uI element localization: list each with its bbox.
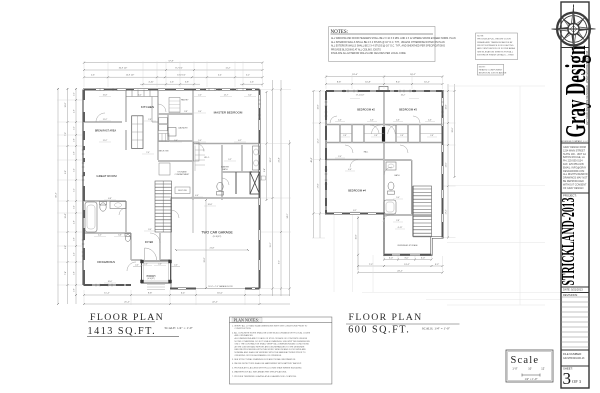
- svg-text:10'-4": 10'-4": [65, 213, 67, 218]
- svg-text:2'-0": 2'-0": [135, 265, 139, 267]
- svg-text:19'-4": 19'-4": [352, 74, 358, 76]
- svg-text:BEDROOM #4: BEDROOM #4: [348, 189, 366, 193]
- svg-text:5'-2": 5'-2": [246, 75, 250, 77]
- svg-text:3'-0": 3'-0": [73, 205, 75, 209]
- svg-text:21'-2": 21'-2": [124, 302, 130, 304]
- powder room fixtures near foyer: [125, 235, 130, 242]
- svg-text:11'-2": 11'-2": [103, 119, 108, 121]
- svg-text:6'-4": 6'-4": [181, 293, 186, 295]
- svg-text:ONLY. THE CONTRACTOR SHALL VER: ONLY. THE CONTRACTOR SHALL VERIFY ALL DI…: [235, 343, 310, 346]
- svg-text:AND ORDINANCES.: AND ORDINANCES.: [235, 334, 254, 337]
- svg-text:2'-8": 2'-8": [430, 135, 434, 137]
- svg-text:3'-0": 3'-0": [404, 257, 409, 259]
- svg-text:FOYER: FOYER: [145, 241, 154, 244]
- svg-text:AND VENTILATION OF FOYER AREA: AND VENTILATION OF FOYER AREA: [477, 47, 515, 50]
- svg-text:15'-9 1/2": 15'-9 1/2": [126, 75, 135, 77]
- porch dim row: [133, 266, 141, 268]
- pantry shelves: [169, 98, 180, 113]
- svg-text:4'-6": 4'-6": [338, 120, 342, 122]
- svg-text:5'-4": 5'-4": [174, 140, 178, 142]
- svg-text:10'-8": 10'-8": [65, 102, 67, 107]
- svg-text:4'-6": 4'-6": [73, 109, 75, 113]
- svg-text:6'-8": 6'-8": [108, 198, 112, 200]
- svg-text:FRAME AND TRANSOM ABOVE AT: FRAME AND TRANSOM ABOVE AT: [477, 41, 513, 44]
- svg-text:Scale: Scale: [511, 355, 540, 366]
- svg-text:BATH: BATH: [223, 168, 229, 171]
- kitchen island: [132, 116, 143, 149]
- svg-text:3'-2": 3'-2": [73, 126, 75, 130]
- garage door opening: [196, 287, 245, 289]
- master bath: garden tub: [235, 172, 237, 194]
- left plan: interior partitions: [84, 90, 260, 289]
- svg-text:EXTERIOR FINISH DETAILS + TRIM: EXTERIOR FINISH DETAILS + TRIM: [477, 54, 513, 57]
- Gray Design logo text (rotated): [561, 45, 592, 137]
- svg-text:ALL DIMENSIONS ARE TO FACE OF: ALL DIMENSIONS ARE TO FACE OF STUD OR FA…: [235, 337, 308, 340]
- svg-text:9'-8": 9'-8": [148, 293, 153, 295]
- svg-text:5'-0": 5'-0": [198, 140, 202, 142]
- svg-text:FLOOR PLAN: FLOOR PLAN: [349, 312, 423, 323]
- svg-text:OF GRAY DESIGN: OF GRAY DESIGN: [563, 187, 584, 190]
- svg-text:6. WATERPROOF ALL WET AREAS P: 6. WATERPROOF ALL WET AREAS PER SPECIFIC…: [232, 371, 287, 374]
- svg-text:3'-0": 3'-0": [421, 257, 426, 259]
- svg-text:2'-6": 2'-6": [73, 288, 75, 292]
- small note box 2: [477, 64, 507, 75]
- svg-text:4'-8": 4'-8": [73, 220, 75, 224]
- svg-text:COMPARTMENT: COMPARTMENT: [175, 173, 190, 176]
- svg-text:BATH: BATH: [395, 174, 401, 177]
- svg-text:2'-0": 2'-0": [144, 264, 148, 266]
- svg-text:7'-0": 7'-0": [65, 132, 67, 136]
- svg-text:PLAN NOTES:: PLAN NOTES:: [234, 317, 259, 322]
- right plan: door arcs: [330, 116, 420, 222]
- svg-text:3'-6": 3'-6": [118, 235, 122, 237]
- svg-text:12': 12': [541, 367, 545, 371]
- svg-text:2'-8": 2'-8": [73, 138, 75, 142]
- right plan title: FLOOR PLAN 600 SQ.FT.: [346, 312, 460, 336]
- title block section dividers: [561, 48, 589, 367]
- svg-text:3. SEE STRUCTURAL DRAWINGS FO: 3. SEE STRUCTURAL DRAWINGS FOR ADDITIONA…: [232, 358, 296, 361]
- svg-text:17'-11 1/2": 17'-11 1/2": [356, 94, 365, 96]
- svg-text:4'-2": 4'-2": [98, 235, 102, 237]
- svg-text:4'-6": 4'-6": [195, 195, 199, 197]
- svg-text:PANTRY: PANTRY: [181, 99, 189, 102]
- svg-text:2'-8": 2'-8": [396, 220, 400, 222]
- chimney box: [379, 87, 388, 92]
- svg-text:6'-2": 6'-2": [238, 140, 242, 142]
- svg-text:21'-8": 21'-8": [210, 248, 215, 250]
- svg-text:BEFORE PROCEEDING WITH THE WOR: BEFORE PROCEEDING WITH THE WORK. WINDOW …: [235, 348, 307, 351]
- date / revisions labels: [563, 288, 583, 298]
- dimension lines bottom (left plan): [84, 294, 290, 296]
- wall poche segments left plan: [84, 90, 260, 289]
- svg-text:5'-8": 5'-8": [73, 271, 75, 275]
- svg-text:2'-6": 2'-6": [91, 75, 95, 77]
- svg-text:3'-6": 3'-6": [73, 237, 75, 241]
- svg-text:8'-7 1/2": 8'-7 1/2": [175, 67, 183, 69]
- svg-text:CONSTRUCTION.: CONSTRUCTION.: [235, 328, 252, 330]
- svg-text:3'-6": 3'-6": [73, 151, 75, 155]
- svg-text:4. SMOKE DETECTORS SHALL BE H: 4. SMOKE DETECTORS SHALL BE HARDWIRED WI…: [232, 362, 302, 365]
- svg-text:9'-8": 9'-8": [65, 245, 67, 249]
- svg-text:15'-8": 15'-8": [103, 95, 108, 97]
- right plan: exterior walls: [326, 91, 443, 255]
- wall poche segments right plan: [326, 91, 443, 255]
- svg-text:17'-8": 17'-8": [318, 183, 320, 188]
- right plan: windows: [325, 90, 444, 184]
- svg-text:GREAT ROOM: GREAT ROOM: [96, 174, 117, 178]
- svg-text:NOMINAL AND SHALL BE VERIFIED: NOMINAL AND SHALL BE VERIFIED WITH THE M…: [235, 351, 307, 354]
- svg-text:(16 SQFT): (16 SQFT): [213, 236, 222, 238]
- svg-text:BREAKFAST AREA: BREAKFAST AREA: [95, 130, 116, 133]
- svg-text:SCALE: 1/4" = 1'-0": SCALE: 1/4" = 1'-0": [165, 326, 194, 330]
- dimension lines left (right plan): [313, 91, 315, 238]
- svg-text:2'-8": 2'-8": [374, 135, 378, 137]
- svg-text:NOTE:: NOTE:: [477, 35, 484, 37]
- svg-text:5'-2": 5'-2": [73, 188, 75, 192]
- svg-text:HEATED COMPONENT: HEATED COMPONENT: [479, 69, 503, 72]
- svg-text:MASTER BEDROOM: MASTER BEDROOM: [214, 111, 243, 115]
- svg-text:1413 SQ.FT.: 1413 SQ.FT.: [88, 326, 157, 337]
- svg-text:NOTED OTHERWISE. DO NOT SCALE: NOTED OTHERWISE. DO NOT SCALE DRAWINGS: …: [235, 340, 311, 343]
- svg-text:A DESIGN COMPANY, L.L.C.: A DESIGN COMPANY, L.L.C.: [561, 140, 589, 143]
- svg-text:OFFICE/BONUS: OFFICE/BONUS: [97, 261, 115, 264]
- scale box: [506, 350, 553, 382]
- svg-text:5. PROVIDE ATTIC ACCESS WITH: 5. PROVIDE ATTIC ACCESS WITH PULL DOWN S…: [232, 366, 302, 369]
- sheet number: [563, 367, 582, 389]
- kitchen counters: [126, 90, 158, 123]
- svg-text:10': 10': [528, 367, 532, 371]
- svg-text:57'-8": 57'-8": [168, 61, 173, 63]
- door arcs (left plan): [96, 104, 229, 271]
- svg-text:9'-2": 9'-2": [279, 260, 281, 264]
- svg-text:18'-0": 18'-0": [270, 157, 272, 162]
- svg-text:1'-0": 1'-0": [512, 367, 517, 371]
- revisions table rule lines: [561, 297, 589, 347]
- svg-text:BUILT-INS: BUILT-INS: [178, 190, 187, 192]
- svg-text:11'-2": 11'-2": [104, 293, 110, 295]
- svg-text:4'-10": 4'-10": [148, 82, 153, 84]
- svg-text:PROVIDE A FULL HEIGHT DOOR: PROVIDE A FULL HEIGHT DOOR: [477, 38, 511, 41]
- W.I.C. shelves: [195, 146, 205, 172]
- svg-text:16'-0" x 7'-0" GARAGE DOOR: 16'-0" x 7'-0" GARAGE DOOR: [208, 285, 233, 288]
- svg-text:13'-6": 13'-6": [446, 162, 448, 167]
- svg-text:22'-2": 22'-2": [212, 302, 218, 304]
- svg-text:6'-11": 6'-11": [398, 227, 403, 229]
- master bath: toilet: [217, 182, 223, 190]
- stairs (left plan): [155, 181, 172, 232]
- title block border: [561, 2, 589, 388]
- svg-text:7'-4": 7'-4": [65, 271, 67, 275]
- dim extension horizontals left: [57, 100, 82, 285]
- svg-text:1. VERIFY ALL LOT AND SLAB DI: 1. VERIFY ALL LOT AND SLAB DIMENSIONS WI…: [232, 324, 308, 327]
- bedroom4 side dim: [357, 216, 359, 270]
- left plan: exterior walls: [83, 90, 260, 289]
- svg-text:FLOOR PLAN: FLOOR PLAN: [90, 312, 164, 323]
- svg-text:13'-9 1/2": 13'-9 1/2": [177, 75, 186, 77]
- svg-text:3'-2": 3'-2": [435, 264, 440, 266]
- svg-text:12'-7": 12'-7": [224, 95, 229, 97]
- svg-text:REVISIONS:: REVISIONS:: [563, 293, 578, 297]
- master bath: shower with X: [250, 172, 260, 194]
- svg-text:11'-2": 11'-2": [226, 67, 231, 69]
- svg-text:49'-4": 49'-4": [55, 192, 57, 197]
- dimension lines left (left plan): [57, 88, 59, 304]
- file number box: [563, 352, 585, 360]
- svg-text:9'-4": 9'-4": [264, 168, 266, 172]
- svg-text:6'-2": 6'-2": [138, 95, 142, 97]
- porch: [142, 261, 171, 283]
- svg-text:20'-8": 20'-8": [208, 204, 213, 206]
- NOTES box: [329, 27, 456, 62]
- svg-text:600 SQ.FT.: 600 SQ.FT.: [348, 324, 410, 335]
- right plan: closet shelves: [340, 133, 443, 135]
- svg-text:10'-8": 10'-8": [446, 104, 448, 109]
- svg-text:16'-2": 16'-2": [401, 94, 406, 96]
- svg-text:2'-0": 2'-0": [338, 156, 342, 158]
- svg-text:7'-0": 7'-0": [146, 152, 150, 154]
- svg-text:STRICKLAND-2013: STRICKLAND-2013: [558, 197, 578, 285]
- svg-text:11'-2": 11'-2": [103, 140, 108, 142]
- dimension lines right (right plan): [447, 84, 449, 238]
- svg-text:2'-8": 2'-8": [400, 135, 404, 137]
- svg-text:2'-6": 2'-6": [250, 82, 254, 84]
- svg-text:ALL WINDOW AND DOOR HEADERS SH: ALL WINDOW AND DOOR HEADERS SHALL BE 2 X…: [331, 37, 456, 40]
- left plan title: FLOOR PLAN 1413 SQ.FT.: [87, 312, 193, 337]
- svg-text:INSULATE ALL EXTERIOR WALLS AN: INSULATE ALL EXTERIOR WALLS AND CEILINGS…: [331, 52, 406, 55]
- dimension lines top (right plan): [326, 76, 443, 78]
- svg-text:(6 SQFT): (6 SQFT): [147, 278, 154, 280]
- svg-text:DATE: 5/21/2013: DATE: 5/21/2013: [563, 288, 583, 292]
- svg-text:5'-2": 5'-2": [228, 159, 232, 161]
- svg-text:LET YOUR IDEAS BE DESIGNED - W: LET YOUR IDEAS BE DESIGNED - WWW.GRAYDES…: [585, 51, 589, 125]
- svg-text:ORDERING OR ROUGH FRAMING OF O: ORDERING OR ROUGH FRAMING OF OPENINGS.: [235, 354, 283, 357]
- svg-text:2'-8": 2'-8": [148, 119, 152, 121]
- svg-text:HALL: HALL: [364, 151, 369, 154]
- svg-text:3'-8": 3'-8": [185, 82, 189, 84]
- center wall poche: [382, 127, 385, 142]
- svg-text:10'-0": 10'-0": [108, 281, 113, 283]
- foyer entry door: [145, 248, 157, 260]
- svg-text:3'-0": 3'-0": [389, 257, 394, 259]
- side stoop right of master bath: [260, 176, 266, 180]
- svg-text:10'-8": 10'-8": [318, 104, 320, 109]
- svg-text:FRONT ENTRANCE FOR LIGHTING: FRONT ENTRANCE FOR LIGHTING: [477, 44, 514, 47]
- svg-text:FILE NUMBER:: FILE NUMBER:: [563, 352, 582, 356]
- garage interior dim: [205, 200, 207, 288]
- svg-text:BEDROOM #2: BEDROOM #2: [357, 108, 375, 112]
- svg-text:OF 3: OF 3: [572, 379, 582, 384]
- svg-text:4'-6": 4'-6": [428, 120, 432, 122]
- svg-text:3'-0": 3'-0": [148, 229, 152, 231]
- svg-text:W.I.C.: W.I.C.: [204, 157, 210, 159]
- svg-text:PROVIDE BLOCKING AT ALL CEILIN: PROVIDE BLOCKING AT ALL CEILING JOISTS: [331, 48, 381, 51]
- svg-text:KITCHEN: KITCHEN: [141, 105, 154, 109]
- svg-text:28'-6": 28'-6": [452, 127, 454, 132]
- svg-text:23'-4": 23'-4": [279, 157, 281, 162]
- dimension lines bottom (right plan): [384, 259, 432, 261]
- dimension lines right (left plan): [266, 92, 268, 200]
- svg-text:10'-2": 10'-2": [424, 82, 430, 84]
- svg-text:SCALE: 1/4" = 1'-0": SCALE: 1/4" = 1'-0": [422, 326, 451, 330]
- right plan: interior partitions: [326, 91, 443, 237]
- faint lower-level outline below right plan: [334, 215, 373, 292]
- svg-text:40'-4": 40'-4": [311, 157, 313, 162]
- svg-text:GD-STRICKLND-13: GD-STRICKLND-13: [563, 357, 585, 360]
- svg-text:PROJECT:: PROJECT:: [563, 194, 577, 198]
- svg-text:LAUNDRY: LAUNDRY: [178, 127, 188, 130]
- svg-text:5'-0": 5'-0": [73, 168, 75, 172]
- compass rose: [552, 5, 596, 52]
- svg-text:9'-8": 9'-8": [65, 170, 67, 174]
- master bath: double vanity: [253, 146, 260, 170]
- svg-text:NOTE:: NOTE:: [479, 67, 486, 69]
- svg-text:20'-8": 20'-8": [204, 257, 206, 262]
- svg-text:4'-6": 4'-6": [370, 120, 374, 122]
- svg-text:1/4" = 1'-0": 1/4" = 1'-0": [524, 378, 537, 381]
- svg-text:18'-2": 18'-2": [410, 74, 416, 76]
- svg-text:SEE ELEVATION SHEETS FOR ALL: SEE ELEVATION SHEETS FOR ALL: [477, 50, 514, 53]
- PLAN NOTES box: [229, 317, 332, 384]
- svg-text:7. PROVIDE TEMPERED GLAZING A: 7. PROVIDE TEMPERED GLAZING AT ALL HAZAR…: [232, 375, 297, 378]
- windows (left plan): [82, 88, 247, 286]
- svg-text:8'-8": 8'-8": [337, 82, 342, 84]
- dimension lines top (left plan): [84, 62, 263, 64]
- svg-text:MECH. RM: MECH. RM: [159, 151, 169, 153]
- svg-text:24'-2": 24'-2": [397, 270, 403, 272]
- laundry room washer dryer: [159, 118, 168, 124]
- svg-text:4'-0": 4'-0": [73, 252, 75, 256]
- small note box 1: [476, 33, 518, 60]
- bedroom door arcs: [370, 125, 381, 134]
- hall bath: tub: [85, 202, 97, 232]
- hall bath: vanity: [110, 202, 126, 209]
- hall bath: toilet: [100, 203, 106, 211]
- svg-text:9'-4": 9'-4": [396, 82, 401, 84]
- svg-text:2'-2": 2'-2": [73, 92, 75, 96]
- svg-text:8'-2": 8'-2": [353, 210, 357, 212]
- svg-text:4'-4": 4'-4": [218, 75, 222, 77]
- right plan: bath fixtures: [386, 162, 396, 170]
- svg-text:3'-8": 3'-8": [184, 111, 188, 113]
- svg-text:4'-6": 4'-6": [348, 169, 352, 171]
- svg-text:AT THE JOB SITE AND REPORT ANY: AT THE JOB SITE AND REPORT ANY DISCREPAN…: [235, 345, 305, 348]
- front steps: [147, 285, 165, 290]
- mech room / storage compartment: [159, 134, 170, 142]
- faint layout lines: [362, 86, 560, 305]
- svg-text:4'-6": 4'-6": [396, 120, 400, 122]
- svg-text:BEDROOM JOISTS ABOVE: BEDROOM JOISTS ABOVE: [479, 72, 507, 75]
- refrigerator: [168, 128, 176, 137]
- interior dim ticks (left plan): [94, 97, 256, 284]
- svg-text:16'-8": 16'-8": [356, 234, 358, 239]
- svg-text:5'-0": 5'-0": [396, 197, 400, 199]
- svg-text:3'-0": 3'-0": [248, 95, 252, 97]
- svg-text:15'-2": 15'-2": [270, 242, 272, 247]
- svg-text:2'-0": 2'-0": [174, 265, 178, 267]
- svg-text:2'-8": 2'-8": [343, 135, 347, 137]
- built-in bench by stairs: [175, 187, 190, 194]
- svg-text:30'-9 1/2": 30'-9 1/2": [119, 67, 128, 69]
- svg-text:BEDROOM #3: BEDROOM #3: [399, 108, 417, 112]
- svg-text:7'-2": 7'-2": [369, 264, 374, 266]
- svg-text:10'-8": 10'-8": [365, 82, 371, 84]
- svg-text:3: 3: [563, 369, 572, 388]
- svg-text:13'-2": 13'-2": [404, 264, 410, 266]
- svg-text:ALL INTERIOR WALLS SHALL BE 2: ALL INTERIOR WALLS SHALL BE 2 X 4 STUDS …: [331, 41, 445, 44]
- svg-text:2. ALL CONCRETE WORK SHALL BE: 2. ALL CONCRETE WORK SHALL BE DONE IN AC…: [232, 331, 311, 334]
- svg-text:17'-2": 17'-2": [446, 209, 448, 214]
- svg-text:2'-0": 2'-0": [198, 95, 202, 97]
- svg-text:2'-0": 2'-0": [158, 264, 162, 266]
- dim extension verticals top: [84, 62, 263, 88]
- svg-text:ALL EXTERIOR WALLS SHALL BE 2: ALL EXTERIOR WALLS SHALL BE 2 X 4 STUDS …: [331, 45, 445, 48]
- svg-text:3'-4": 3'-4": [198, 111, 202, 113]
- right plan: stairs: [413, 186, 432, 237]
- svg-text:UNFINISHED STORAGE: UNFINISHED STORAGE: [397, 244, 418, 247]
- svg-text:12'-2": 12'-2": [318, 138, 320, 143]
- svg-text:2'-6": 2'-6": [170, 82, 174, 84]
- svg-text:24'-2": 24'-2": [287, 213, 289, 218]
- svg-text:16'-0": 16'-0": [217, 293, 223, 295]
